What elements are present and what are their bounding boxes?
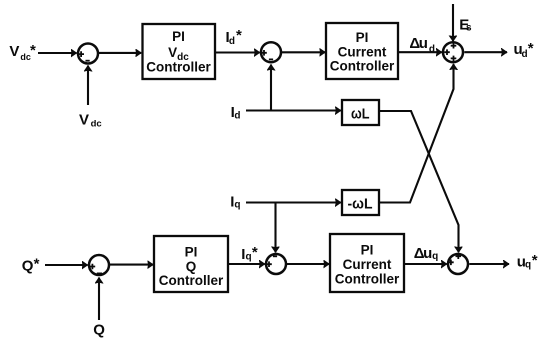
sign + on S4 left [90,264,96,270]
summer S4 [89,255,109,275]
svg-text:q: q [234,200,240,211]
label Iq* [241,244,258,263]
svg-text:PI: PI [172,29,185,44]
svg-text:Δu: Δu [409,35,428,52]
wire PI Vdc controller to summer S2 (Id*) [215,51,260,53]
svg-text:d: d [429,44,435,55]
label Id* [226,27,243,47]
svg-text:s: s [466,23,472,34]
wire Iq to -wL block [246,201,341,203]
sign + on S2 left [261,50,267,56]
svg-text:Controller: Controller [335,271,400,286]
svg-text:q: q [246,252,252,263]
label block U4 text [335,243,400,287]
wire Q feedback up into S4 [98,278,100,320]
sign + on S6 top [456,253,462,259]
label Vdc feedback [79,112,102,130]
svg-text:dc: dc [91,119,102,130]
block U1 PI Vdc Controller [143,24,216,79]
label block U2 text [330,30,395,74]
label Es [459,16,472,33]
svg-text:*: * [34,256,40,273]
svg-text:Q: Q [93,322,105,339]
svg-text:*: * [30,42,36,59]
block -wL [342,190,379,215]
svg-text:Controller: Controller [146,59,211,74]
summer S2 [261,42,281,62]
summer S5 [266,254,286,274]
sign - on S4 bottom [97,272,102,274]
summer S3 [443,42,463,62]
svg-text:PI: PI [356,30,369,45]
wire S5 to PI current controller U4 [287,263,329,265]
sign + on S3 left [444,49,450,55]
svg-text:Q: Q [186,259,197,274]
wire S4 to PI Q controller [110,264,153,266]
wire wL output cross-coupling down into S6 [379,111,459,252]
svg-text:q: q [432,251,438,262]
svg-text:*: * [252,244,258,261]
label delta-ud [409,35,435,55]
svg-text:Controller: Controller [159,273,224,288]
sign + on S3 top [451,43,457,49]
wire S6 output uq* [469,263,509,265]
label Vdc* input [9,42,36,62]
label block -wL text [348,196,373,213]
label block wL text [351,105,370,122]
svg-text:V: V [79,112,89,129]
wire Q* input to summer S4 [45,264,88,266]
label ud* output [514,40,534,60]
wire -wL output cross-coupling up into S3 [379,64,454,202]
svg-text:*: * [532,252,538,269]
sign + on S6 left [448,260,454,266]
sign + on S1 left [78,51,84,57]
sign + on S3 bottom [451,56,457,62]
block wL [342,100,379,125]
svg-text:d: d [234,110,240,121]
wire Vdc* input to summer S1 [38,52,77,54]
svg-text:q: q [525,259,531,270]
wire Vdc feedback up into S1 [87,66,89,105]
svg-text:Current: Current [343,257,392,272]
wire Id branch up into S2 [270,65,272,111]
svg-text:PI: PI [361,243,374,258]
svg-text:*: * [528,40,534,57]
wire PI Q controller to summer S5 (Iq*) [228,263,265,265]
sign - on S2 bottom [269,58,273,60]
sign + on S5 left [266,261,272,267]
svg-text:ωL: ωL [351,105,370,122]
svg-text:V: V [9,43,19,60]
block U4 PI Current Controller (q-axis) [330,234,404,292]
label Q* input [22,256,40,275]
sign - on S5 top [273,255,277,257]
wire S1 to PI Vdc controller [99,52,141,54]
wire U2 to summer S3 (delta-ud) [398,51,442,53]
label uq* output [517,252,538,271]
svg-text:Q: Q [22,258,34,275]
wire Id to wL block [246,109,341,111]
svg-text:d: d [229,36,235,47]
label Id [231,104,241,121]
svg-text:Δu: Δu [414,245,433,262]
svg-text:Controller: Controller [330,59,395,74]
sign - on S1 bottom [86,60,90,62]
wire S3 output ud* [464,51,507,53]
label block U3 text [159,245,224,289]
label block U1 text [146,29,211,74]
label Q feedback [93,322,105,339]
svg-text:Current: Current [338,44,387,59]
label Iq [230,193,240,210]
wire Iq branch down into S5 [274,203,276,253]
svg-text:d: d [522,49,528,60]
label delta-uq [414,245,438,262]
block U2 PI Current Controller (d-axis) [326,23,398,79]
wire Es down into S3 [452,4,454,41]
block U3 PI Q Controller [154,236,228,292]
svg-text:PI: PI [185,245,198,260]
summer S6 [448,254,468,274]
svg-text:-ωL: -ωL [348,196,373,213]
svg-text:*: * [236,27,242,44]
wire S2 to PI current controller U2 [282,51,325,53]
wire U4 to summer S6 (delta-uq) [404,263,447,265]
summer S1 [78,44,98,64]
